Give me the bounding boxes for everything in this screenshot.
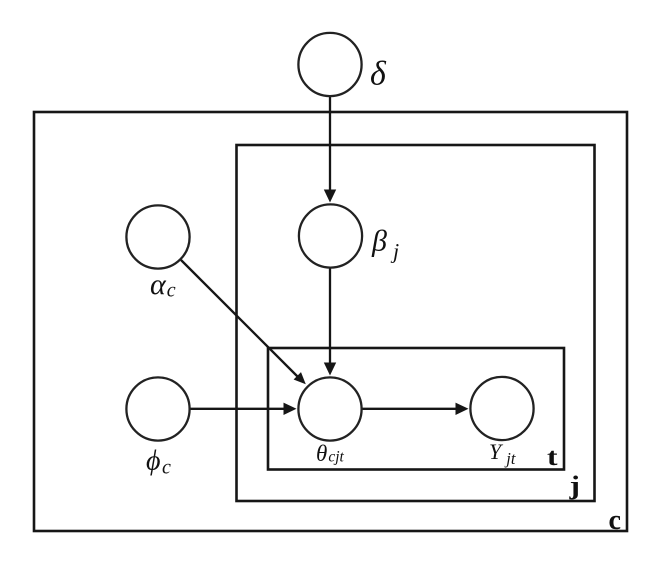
wire phi_c to theta_cjt: [190, 403, 297, 415]
svg-text:δ: δ: [370, 56, 387, 93]
wire alpha_c to theta_cjt: [181, 260, 306, 384]
node phi_c: [126, 377, 189, 440]
plate t label t: [547, 444, 558, 471]
node theta_cjt: [298, 377, 361, 440]
node theta_cjt label: [316, 441, 344, 466]
plate j: [237, 145, 595, 501]
plate c label c: [609, 504, 622, 536]
wire beta_j to theta_cjt: [324, 268, 336, 376]
node delta label: [370, 56, 387, 93]
node alpha_c label: [150, 268, 176, 302]
node beta_j label: [371, 225, 399, 264]
plate c: [34, 112, 627, 531]
svg-text:c: c: [609, 504, 622, 536]
plate t: [268, 348, 564, 470]
node beta_j: [299, 204, 362, 267]
node phi_c label: [146, 446, 171, 479]
node delta: [298, 33, 361, 96]
node Y_jt: [470, 377, 533, 440]
node alpha_c: [126, 205, 189, 268]
wire delta to beta_j: [324, 96, 336, 203]
wire theta_cjt to Y_jt: [362, 403, 469, 415]
node Y_jt label: [489, 439, 516, 468]
plate j label j: [568, 471, 580, 500]
svg-text:t: t: [547, 444, 558, 471]
svg-text:j: j: [568, 471, 580, 500]
